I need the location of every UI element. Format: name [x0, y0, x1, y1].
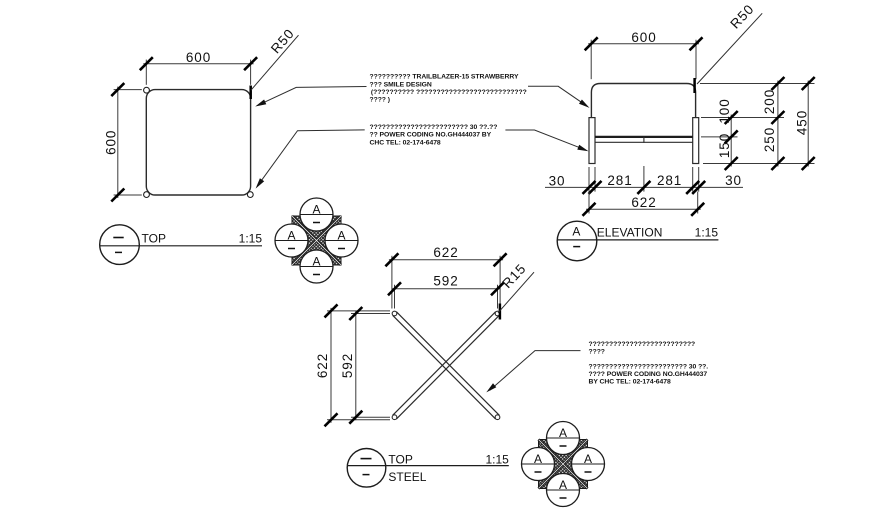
extension: floor level [703, 163, 815, 165]
extension line right of 600 top dim [250, 60, 252, 85]
dimension line 450 [807, 81, 809, 167]
stretcher bottom line [595, 141, 693, 143]
tick top [111, 83, 124, 96]
R15 leader [498, 272, 534, 313]
wire [351, 416, 390, 418]
corner circle bottom-left [144, 192, 150, 198]
tick [325, 413, 338, 426]
svg-text:622: 622 [433, 245, 458, 260]
diagonal X thick [539, 440, 588, 489]
arrowhead note2 [256, 178, 265, 188]
svg-text:TOP: TOP [142, 231, 166, 245]
dimension line 600 horizontal [143, 63, 253, 65]
extension lines left dims [327, 310, 390, 312]
steel tube bar TR-BL side 2 [393, 312, 496, 416]
svg-text:1:15: 1:15 [485, 452, 509, 466]
svg-text:281: 281 [607, 173, 632, 188]
svg-text:?????????? TRAILBLAZER-15 STRA: ?????????? TRAILBLAZER-15 STRAWBERRY [370, 74, 519, 81]
svg-text:A: A [572, 224, 580, 238]
tick [349, 411, 362, 424]
diagonal X thick [292, 216, 341, 265]
dimension line 622 left [330, 308, 332, 423]
R15 radius tick [499, 304, 502, 320]
R50 leader [697, 13, 762, 84]
extension line bottom of 600 left dim [114, 194, 142, 196]
svg-text:A: A [559, 478, 567, 492]
section circle south [300, 250, 333, 283]
svg-text:ELEVATION: ELEVATION [597, 226, 663, 240]
arrowhead [579, 100, 590, 108]
extension: top surface to 450 dim [700, 83, 815, 85]
svg-text:A: A [559, 426, 567, 440]
tick [385, 253, 398, 266]
table top profile (elevation) [591, 84, 695, 118]
svg-text:???????????????????????? 30 ??: ???????????????????????? 30 ??.?? [370, 124, 498, 131]
tick [692, 181, 705, 194]
dash upper [361, 458, 372, 460]
dimension line 600 [588, 43, 699, 45]
tick [771, 157, 784, 170]
leader note2 to left leg [505, 130, 585, 150]
svg-text:???????????????????????? 30 ??: ???????????????????????? 30 ??. [589, 363, 709, 370]
svg-text:?? POWER CODING NO.GH444037 BY: ?? POWER CODING NO.GH444037 BY [370, 132, 492, 139]
dash lower [363, 474, 370, 476]
wire [497, 285, 499, 309]
svg-text:30: 30 [725, 173, 742, 188]
svg-text:592: 592 [433, 274, 458, 289]
wire [594, 167, 596, 192]
svg-text:??? SMILE DESIGN: ??? SMILE DESIGN [370, 81, 432, 88]
TOP STEEL divider and underline [347, 465, 509, 467]
svg-text:200: 200 [762, 89, 777, 114]
TOP STEEL title circle [347, 449, 386, 488]
svg-text:100: 100 [717, 98, 732, 123]
tick [771, 111, 784, 124]
tube end circle TR [495, 311, 500, 316]
wire [499, 256, 501, 309]
svg-text:600: 600 [631, 30, 656, 45]
corner circle top-left [144, 87, 150, 93]
tick [349, 307, 362, 320]
extension line top of 600 left dim [114, 89, 142, 91]
wire [394, 285, 396, 309]
tube end circle TL [392, 311, 397, 316]
svg-text:622: 622 [631, 195, 656, 210]
arrowhead [486, 383, 496, 392]
dash lower [573, 246, 580, 248]
tick left [585, 37, 598, 50]
TOP title circle [100, 225, 140, 265]
radius tick at top-right corner [693, 78, 696, 93]
extension: legs top level [701, 117, 784, 119]
wire [327, 419, 390, 421]
wire [692, 167, 694, 192]
radius tick at top-right corner [249, 86, 252, 100]
svg-text:CHC TEL: 02-174-6478: CHC TEL: 02-174-6478 [370, 139, 441, 146]
section circle west [522, 448, 555, 481]
stretcher top line [595, 136, 693, 138]
svg-text:A: A [312, 202, 320, 216]
tick [686, 181, 699, 194]
leader note1 to elevation edge [528, 86, 586, 105]
steel tube bar TL-BR side 2 [396, 312, 499, 416]
svg-text:???? ): ???? ) [370, 97, 390, 104]
tick [725, 130, 738, 143]
tick [802, 77, 815, 90]
leg extension lines to bottom dims [588, 167, 590, 192]
section circle north [547, 422, 580, 455]
svg-text:A: A [312, 254, 320, 268]
tick [325, 304, 338, 317]
wire [351, 313, 390, 315]
dimension line 592 top [392, 288, 501, 290]
svg-text:450: 450 [794, 110, 809, 135]
svg-text:592: 592 [340, 353, 355, 378]
svg-text:A: A [584, 452, 592, 466]
tick left [140, 57, 153, 70]
extension: stretcher top level [701, 136, 738, 138]
svg-text:A: A [337, 228, 345, 242]
extension line right of 600 dim [695, 40, 697, 79]
dimension line 622 top [389, 259, 503, 261]
svg-text:A: A [287, 228, 295, 242]
section marker cluster 2 [522, 422, 605, 507]
svg-text:??????????????????????????: ?????????????????????????? [589, 341, 696, 348]
svg-text:600: 600 [186, 50, 211, 65]
center extension [643, 166, 645, 192]
steel tube bar TR-BL side 1 [396, 315, 499, 419]
dash upper [113, 237, 123, 239]
section circle east [572, 448, 605, 481]
section circle west [275, 224, 308, 257]
tick [583, 203, 596, 216]
tick [589, 181, 602, 194]
stretcher joint tick [643, 137, 645, 143]
tick [691, 203, 704, 216]
extension line left of 600 top dim [145, 60, 147, 85]
svg-text:???? POWER CODING NO.GH444037: ???? POWER CODING NO.GH444037 [589, 371, 708, 378]
corner circle bottom-right [247, 192, 253, 198]
leader from note1 to top edge [259, 87, 367, 105]
arrowhead [577, 145, 588, 151]
left leg [589, 118, 595, 164]
svg-text:150: 150 [717, 133, 732, 158]
dimension line 200/250 [777, 81, 779, 167]
svg-text:250: 250 [762, 127, 777, 152]
leader from note2 to bottom-right corner [257, 130, 364, 186]
tick bottom [111, 189, 124, 202]
tube end circle BR [495, 415, 500, 420]
svg-text:1:15: 1:15 [695, 226, 719, 240]
tick [725, 111, 738, 124]
tick right [244, 57, 257, 70]
extension line left of 600 dim [590, 40, 592, 79]
svg-text:1:15: 1:15 [239, 231, 263, 245]
extensions to 622 dim [588, 192, 590, 214]
wire [697, 192, 699, 214]
svg-text:622: 622 [315, 353, 330, 378]
tick [771, 77, 784, 90]
tick [583, 181, 596, 194]
svg-text:600: 600 [103, 130, 118, 155]
svg-text:STEEL: STEEL [388, 470, 426, 484]
svg-text:30: 30 [549, 173, 566, 188]
hatched square [539, 440, 588, 489]
tube end circle BL [392, 415, 397, 420]
leader note3 to steel bar [490, 351, 581, 391]
table top outline (TOP view rounded square) [146, 90, 250, 195]
dimension line 622 [586, 208, 701, 210]
section circle south [547, 474, 580, 507]
section circle north [300, 198, 333, 231]
svg-text:BY CHC TEL: 02-174-6478: BY CHC TEL: 02-174-6478 [589, 379, 671, 386]
steel tube bar TL-BR side 1 [393, 315, 496, 419]
dimension line 600 vertical [117, 87, 119, 198]
tick [388, 282, 401, 295]
section circle east [325, 224, 358, 257]
arrowhead note1 [255, 100, 266, 107]
tick [491, 282, 504, 295]
tick right [690, 37, 703, 50]
ELEVATION title circle [557, 221, 597, 261]
hatched square [292, 216, 341, 265]
dash lower [115, 251, 122, 253]
tick [494, 253, 507, 266]
extension lines top dims [391, 256, 393, 309]
svg-text:TOP: TOP [388, 452, 412, 466]
section marker cluster 1 [275, 198, 358, 283]
R50 leader line [251, 35, 299, 90]
tick [802, 157, 815, 170]
svg-text:(?????????? ??????????????????: (?????????? ??????????????????????????? [371, 89, 527, 96]
bottom dimension line 30/281/281/30 [545, 186, 743, 188]
TOP title divider and underline [100, 245, 262, 247]
svg-text:281: 281 [657, 173, 682, 188]
svg-text:A: A [534, 452, 542, 466]
tick [637, 181, 650, 194]
tick [725, 157, 738, 170]
svg-text:????: ???? [589, 349, 605, 356]
ELEVATION divider and underline [557, 239, 718, 241]
right leg [693, 118, 699, 164]
dimension line 592 left [355, 311, 357, 421]
wire [698, 167, 700, 192]
dimension line 100/150 [730, 115, 732, 167]
